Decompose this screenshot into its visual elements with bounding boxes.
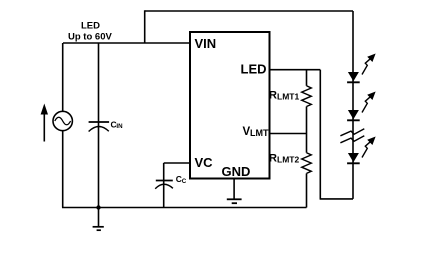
svg-text:LED: LED <box>241 62 267 77</box>
wire ground stub below rail <box>98 208 100 227</box>
wire GND pin stub <box>233 179 235 199</box>
svg-text:LMT1: LMT1 <box>277 92 299 102</box>
svg-text:LED: LED <box>81 21 100 32</box>
LED D1 <box>347 55 375 83</box>
break symbol in LED string <box>340 129 364 143</box>
AC source V1 <box>53 111 72 130</box>
wire LED return bottom <box>320 198 353 200</box>
wire riser from VIN wire to top rail <box>144 10 146 43</box>
wire LED string vertical <box>352 11 354 199</box>
svg-text:R: R <box>269 90 277 102</box>
svg-text:LMT: LMT <box>250 128 269 138</box>
svg-text:GND: GND <box>222 164 251 179</box>
junction dot on rail <box>96 205 100 209</box>
svg-text:VC: VC <box>195 155 214 170</box>
wire Cc branch vertical <box>163 163 165 208</box>
ground symbol at GND pin <box>227 199 242 203</box>
wire source bottom lead <box>62 131 64 208</box>
svg-text:VIN: VIN <box>195 36 217 51</box>
wire VIN net horizontal <box>63 42 190 44</box>
ground symbol at rail <box>93 227 104 230</box>
svg-text:Up to 60V: Up to 60V <box>68 32 112 43</box>
LED D2 <box>347 93 375 121</box>
capacitor CIN <box>89 122 110 132</box>
svg-text:IN: IN <box>116 123 123 130</box>
wire LED pin horizontal <box>270 69 321 71</box>
wire LED net vertical <box>319 70 321 199</box>
wire VLMT pin horizontal <box>270 133 307 135</box>
resistor RLMT2 <box>302 134 312 208</box>
svg-text:R: R <box>269 153 277 165</box>
resistor RLMT1 <box>302 70 312 134</box>
wire bottom ground rail <box>62 207 307 209</box>
wire VC pin horizontal <box>164 162 190 164</box>
annotation arrow up <box>41 104 48 142</box>
wire top rail VIN to LED string <box>145 10 353 12</box>
op IC U1 body <box>190 32 270 179</box>
svg-text:C: C <box>182 178 187 185</box>
LED D3 <box>347 138 375 164</box>
wire source top lead <box>62 43 64 111</box>
capacitor Cc <box>155 181 173 189</box>
wire CIN branch vertical <box>98 43 100 208</box>
svg-text:LMT2: LMT2 <box>277 155 299 165</box>
